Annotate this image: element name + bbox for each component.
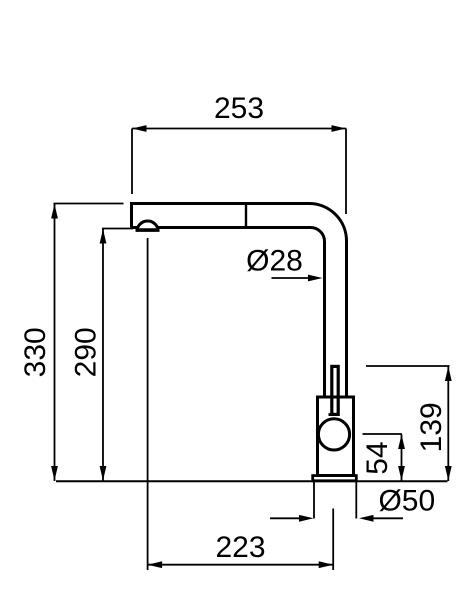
dimension 330: bottom arrowhead bbox=[51, 466, 58, 481]
dimension 54: top arrowhead bbox=[398, 435, 405, 450]
dimension 223: extension line right (body centerline) bbox=[332, 509, 334, 571]
svg-text:Ø28: Ø28 bbox=[246, 245, 303, 278]
dimension 223: right arrowhead bbox=[319, 561, 334, 568]
ball joint circle bbox=[318, 419, 349, 450]
dimension 290: top arrowhead bbox=[100, 229, 107, 244]
faucet body bbox=[318, 397, 354, 476]
dimension 330: extension line top bbox=[54, 203, 124, 205]
dimension 54: bottom arrowhead bbox=[398, 466, 405, 481]
dimension 223: dimension line bbox=[148, 564, 334, 566]
dimension 290: extension line top bbox=[102, 228, 133, 230]
dimension 139: dimension line bbox=[447, 367, 449, 482]
label diameter 50: right arrow line bbox=[369, 517, 403, 519]
label diameter 28: leader arrowhead bbox=[308, 275, 323, 282]
dimension 139: bottom arrowhead bbox=[445, 466, 452, 481]
dimension 290: bottom arrowhead bbox=[100, 466, 107, 481]
svg-text:253: 253 bbox=[214, 92, 264, 125]
svg-text:54: 54 bbox=[361, 441, 394, 474]
dimension 54: extension line top bbox=[363, 433, 403, 435]
dimension 253: right arrowhead bbox=[332, 125, 347, 132]
lever handle bbox=[332, 366, 338, 414]
label diameter 50: left extension line below counter bbox=[313, 482, 315, 519]
spray head joint line bbox=[245, 204, 247, 227]
faucet spout arm and riser pipe outline bbox=[132, 204, 347, 398]
dimension 290: dimension line bbox=[102, 229, 104, 482]
label diameter 50: right extension line below counter bbox=[355, 482, 357, 519]
label diameter 50: left arrow line bbox=[270, 517, 303, 519]
dimension 253: extension line right bbox=[345, 129, 347, 215]
label diameter 28: leader arrow line bbox=[272, 277, 313, 279]
dimension 330: top arrowhead bbox=[51, 204, 58, 219]
aerator dome on spout underside bbox=[137, 221, 158, 229]
svg-text:Ø50: Ø50 bbox=[378, 485, 435, 518]
label diameter 50: right arrowhead pointing left bbox=[359, 515, 374, 522]
dimension 253: dimension line bbox=[132, 128, 346, 130]
dimension 253: left arrowhead bbox=[132, 125, 147, 132]
svg-text:223: 223 bbox=[215, 531, 265, 564]
svg-text:139: 139 bbox=[415, 402, 448, 452]
dimension 330: dimension line bbox=[54, 204, 56, 482]
dimension 223: left arrowhead bbox=[148, 561, 163, 568]
dimension 223: extension line left (spout outlet centerline) bbox=[147, 238, 149, 570]
dimension 253: extension line left bbox=[131, 129, 133, 195]
dimension 54: dimension line bbox=[401, 435, 403, 482]
label diameter 50: left arrowhead pointing right bbox=[299, 515, 314, 522]
dimension 139: extension line top bbox=[366, 365, 450, 367]
countertop baseline bbox=[56, 480, 448, 482]
base flange bbox=[313, 476, 357, 481]
dimension 139: top arrowhead bbox=[445, 367, 452, 382]
svg-text:290: 290 bbox=[70, 327, 103, 377]
svg-text:330: 330 bbox=[19, 327, 52, 377]
